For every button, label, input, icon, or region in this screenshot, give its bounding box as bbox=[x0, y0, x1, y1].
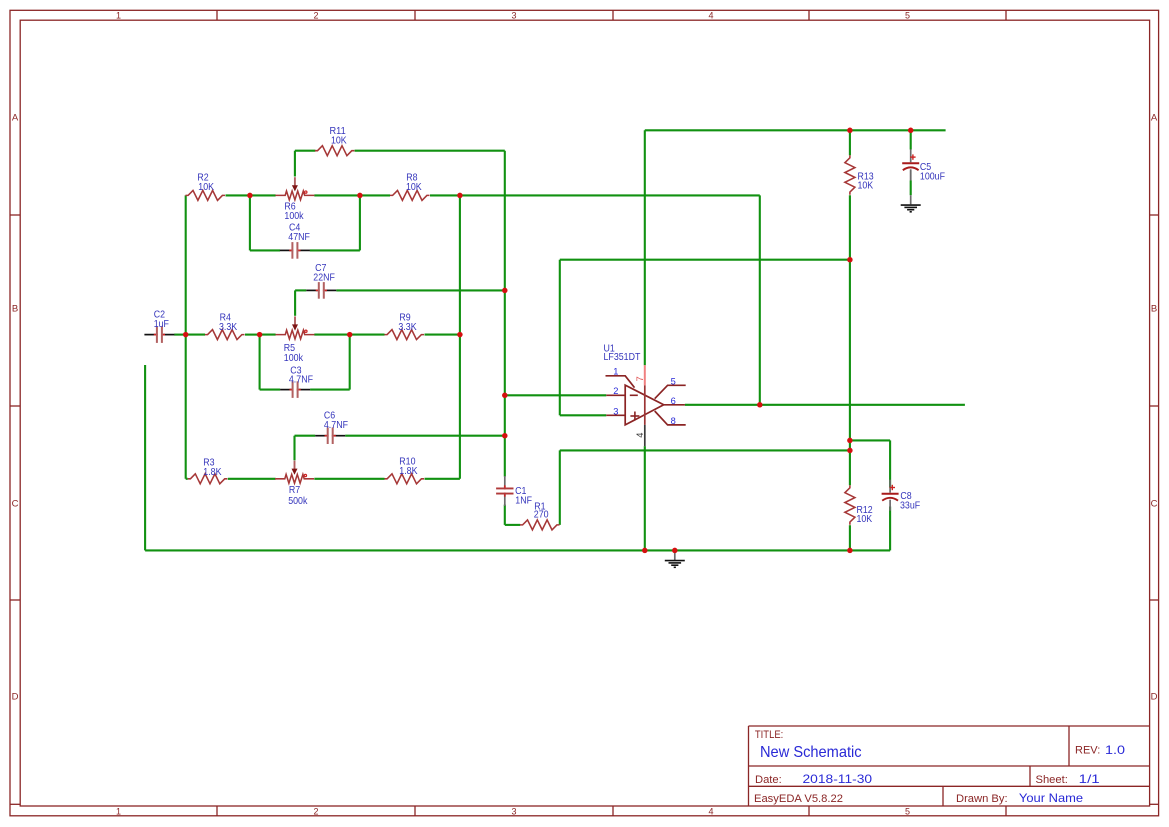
svg-text:22NF: 22NF bbox=[313, 273, 335, 284]
svg-text:3.3K: 3.3K bbox=[398, 322, 416, 333]
svg-text:1: 1 bbox=[613, 367, 618, 377]
svg-text:1NF: 1NF bbox=[515, 495, 532, 506]
svg-text:A: A bbox=[1151, 112, 1158, 123]
svg-text:R7: R7 bbox=[289, 485, 301, 496]
svg-text:100uF: 100uF bbox=[920, 172, 945, 183]
svg-text:B: B bbox=[12, 303, 18, 314]
svg-text:LF351DT: LF351DT bbox=[604, 352, 641, 363]
svg-text:2: 2 bbox=[313, 11, 318, 21]
svg-text:D: D bbox=[1151, 691, 1158, 702]
svg-text:5: 5 bbox=[905, 807, 910, 817]
svg-text:EasyEDA V5.8.22: EasyEDA V5.8.22 bbox=[754, 793, 843, 805]
svg-text:2: 2 bbox=[313, 807, 318, 817]
svg-text:5: 5 bbox=[905, 11, 910, 21]
svg-text:500k: 500k bbox=[288, 496, 308, 507]
svg-text:33uF: 33uF bbox=[900, 501, 920, 512]
svg-text:7: 7 bbox=[635, 376, 645, 381]
svg-text:3: 3 bbox=[511, 11, 516, 21]
svg-text:1/1: 1/1 bbox=[1079, 773, 1100, 786]
svg-text:1.0: 1.0 bbox=[1105, 744, 1125, 757]
svg-text:10K: 10K bbox=[406, 182, 422, 193]
svg-text:100k: 100k bbox=[284, 353, 304, 364]
svg-text:2018-11-30: 2018-11-30 bbox=[803, 773, 873, 786]
svg-text:3: 3 bbox=[511, 807, 516, 817]
svg-text:Sheet:: Sheet: bbox=[1036, 774, 1068, 786]
svg-text:4: 4 bbox=[708, 807, 713, 817]
svg-text:REV:: REV: bbox=[1075, 745, 1100, 757]
svg-text:3.3K: 3.3K bbox=[219, 322, 237, 333]
svg-text:47NF: 47NF bbox=[288, 232, 310, 243]
svg-text:Date:: Date: bbox=[755, 774, 782, 786]
svg-text:Your Name: Your Name bbox=[1019, 791, 1084, 805]
svg-text:C: C bbox=[12, 498, 19, 509]
svg-text:A: A bbox=[12, 112, 19, 123]
svg-text:1uF: 1uF bbox=[154, 319, 169, 330]
svg-text:8: 8 bbox=[671, 416, 676, 426]
svg-text:10K: 10K bbox=[857, 514, 873, 525]
svg-text:2: 2 bbox=[613, 386, 618, 396]
svg-text:New Schematic: New Schematic bbox=[760, 744, 862, 761]
svg-text:3: 3 bbox=[613, 406, 618, 416]
svg-text:10K: 10K bbox=[331, 135, 347, 146]
svg-text:B: B bbox=[1151, 303, 1157, 314]
svg-text:1.8K: 1.8K bbox=[203, 467, 221, 478]
svg-text:4.7NF: 4.7NF bbox=[289, 375, 313, 386]
svg-text:10K: 10K bbox=[858, 181, 874, 192]
svg-text:D: D bbox=[12, 691, 19, 702]
svg-text:4: 4 bbox=[635, 433, 645, 438]
svg-text:4: 4 bbox=[708, 11, 713, 21]
svg-text:1: 1 bbox=[116, 807, 121, 817]
svg-text:1: 1 bbox=[116, 11, 121, 21]
svg-text:10K: 10K bbox=[198, 182, 214, 193]
svg-text:C: C bbox=[1151, 498, 1158, 509]
svg-text:4.7NF: 4.7NF bbox=[324, 420, 348, 431]
svg-text:5: 5 bbox=[671, 377, 676, 387]
svg-text:Drawn By:: Drawn By: bbox=[956, 793, 1008, 805]
svg-text:270: 270 bbox=[534, 510, 549, 521]
svg-text:TITLE:: TITLE: bbox=[755, 729, 783, 741]
svg-text:1.8K: 1.8K bbox=[399, 466, 417, 477]
svg-text:6: 6 bbox=[671, 396, 676, 406]
svg-text:100k: 100k bbox=[284, 211, 304, 222]
